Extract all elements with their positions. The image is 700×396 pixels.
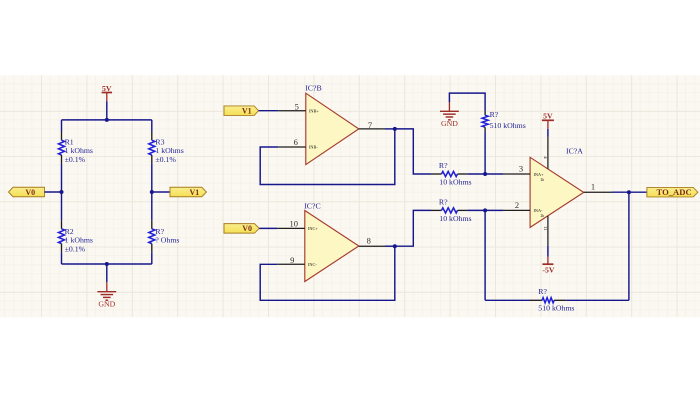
wire left branch mid-lower bbox=[61, 192, 63, 220]
svg-text:1 kOhms: 1 kOhms bbox=[155, 146, 183, 155]
wire IC?C output bbox=[385, 245, 395, 247]
wire pin3 node to pin3 bbox=[485, 173, 503, 175]
resistor R4 unknown value bbox=[149, 220, 180, 252]
pin 9 IC?C bbox=[277, 255, 317, 267]
svg-text:IC?B: IC?B bbox=[305, 84, 321, 93]
ground GND top bbox=[440, 102, 459, 128]
wire right branch mid-upper bbox=[151, 164, 153, 192]
svg-text:3: 3 bbox=[519, 163, 523, 173]
svg-text:INA+: INA+ bbox=[534, 172, 545, 177]
svg-text:INC-: INC- bbox=[308, 262, 317, 267]
svg-text:TO_ADC: TO_ADC bbox=[657, 187, 692, 197]
wire GND top rail bbox=[449, 93, 485, 111]
wire right branch mid-lower bbox=[151, 192, 153, 220]
pin 2 IC?A bbox=[503, 200, 544, 218]
junction IC?B output bbox=[393, 127, 397, 131]
svg-text:6: 6 bbox=[294, 137, 298, 147]
wire output IC?A bbox=[612, 191, 647, 193]
svg-text:? Ohms: ? Ohms bbox=[155, 236, 179, 245]
pin 8 IC?C output bbox=[359, 235, 385, 246]
wire IC?C feedback bbox=[260, 246, 395, 300]
op-amp U2 IC?C bbox=[304, 201, 359, 281]
junction top rail bbox=[105, 118, 109, 122]
svg-text:7: 7 bbox=[368, 120, 372, 130]
svg-text:R?: R? bbox=[439, 161, 448, 170]
junction IC?C output bbox=[393, 244, 397, 248]
junction V1 node bbox=[150, 190, 154, 194]
op-amp U1 IC?B bbox=[305, 84, 359, 165]
wire V1 to pin5 bbox=[259, 110, 279, 112]
svg-text:V0: V0 bbox=[25, 188, 35, 197]
pin 4 vplus IC?A bbox=[543, 137, 548, 169]
svg-text:1 kOhms: 1 kOhms bbox=[65, 146, 93, 155]
svg-text:510 kOhms: 510 kOhms bbox=[490, 121, 526, 130]
ground GND bridge bbox=[97, 282, 116, 308]
wire left branch bottom bbox=[61, 252, 63, 264]
wire IC?B out to R5 bbox=[395, 129, 431, 174]
pin 1 IC?A output bbox=[584, 181, 612, 192]
svg-text:2: 2 bbox=[515, 200, 519, 210]
svg-text:V1: V1 bbox=[242, 107, 252, 116]
svg-text:1 kOhms: 1 kOhms bbox=[65, 236, 93, 245]
wire R6 to junction bbox=[467, 209, 485, 211]
wire left branch upper bbox=[61, 120, 63, 132]
svg-text:IC?A: IC?A bbox=[566, 146, 583, 155]
svg-text:10: 10 bbox=[289, 219, 298, 229]
junction pin2 node bbox=[483, 208, 487, 212]
wire feedback riser bbox=[628, 192, 630, 300]
power -5V symbol IC?A bbox=[542, 257, 555, 275]
svg-text:8: 8 bbox=[367, 235, 371, 245]
svg-text:±0.1%: ±0.1% bbox=[155, 155, 176, 164]
resistor R8 510 kOhms bbox=[530, 287, 574, 313]
wire bridge to V1 port bbox=[152, 191, 170, 193]
svg-text:R?: R? bbox=[439, 197, 448, 206]
svg-text:5: 5 bbox=[295, 101, 299, 111]
svg-text:R?: R? bbox=[490, 110, 499, 119]
wire pin2 node down bbox=[484, 210, 486, 300]
resistor R6 10 kOhms bbox=[431, 197, 472, 223]
svg-text:GND: GND bbox=[441, 119, 458, 128]
wire right branch bottom bbox=[151, 252, 153, 264]
resistor R2 bbox=[59, 220, 93, 253]
wire feedback bottom left bbox=[485, 299, 530, 301]
svg-text:INB+: INB+ bbox=[309, 108, 319, 113]
svg-text:10 kOhms: 10 kOhms bbox=[439, 214, 471, 223]
svg-text:2b: 2b bbox=[541, 178, 545, 182]
wire pin2 node to pin2 bbox=[485, 209, 503, 211]
pin 10 IC?C bbox=[277, 219, 318, 231]
wire right branch upper bbox=[151, 120, 153, 132]
svg-text:R?: R? bbox=[538, 287, 547, 296]
svg-text:-5V: -5V bbox=[542, 266, 554, 275]
schematic sheet background bbox=[0, 75, 700, 317]
svg-text:INC+: INC+ bbox=[308, 226, 318, 231]
svg-text:INA-: INA- bbox=[534, 208, 544, 213]
wire feedback bottom right bbox=[566, 299, 629, 301]
svg-text:R?: R? bbox=[155, 227, 164, 236]
port V0 left bbox=[9, 187, 45, 197]
junction pin3 node bbox=[483, 172, 487, 176]
power +5V symbol IC?A bbox=[542, 112, 554, 129]
svg-text:10 kOhms: 10 kOhms bbox=[439, 178, 471, 187]
wire left branch mid-upper bbox=[61, 164, 63, 192]
resistor R1 bbox=[59, 132, 93, 164]
pin 7 IC?B output bbox=[359, 120, 385, 130]
pin 3 IC?A bbox=[503, 163, 544, 182]
svg-text:GND: GND bbox=[98, 299, 115, 308]
svg-text:2b: 2b bbox=[541, 214, 545, 218]
wire 5V stem bbox=[106, 101, 108, 120]
svg-text:1: 1 bbox=[591, 181, 595, 191]
wire R7 to pin3 node bbox=[484, 132, 486, 174]
svg-text:5V: 5V bbox=[102, 84, 112, 93]
svg-text:11: 11 bbox=[543, 226, 548, 231]
wire GND stem bbox=[106, 264, 108, 282]
resistor R7 510 kOhms bbox=[482, 110, 526, 132]
port V1 to IC?B bbox=[224, 106, 259, 116]
port V0 to IC?C bbox=[224, 224, 259, 234]
svg-text:IC?C: IC?C bbox=[304, 201, 320, 210]
pin 11 vminus IC?A bbox=[543, 216, 548, 246]
wire IC?B output bbox=[385, 128, 395, 130]
power +5V symbol bridge bbox=[102, 84, 112, 101]
wire IC?C out to R6 bbox=[395, 210, 431, 246]
svg-text:±0.1%: ±0.1% bbox=[65, 244, 86, 253]
wire V0 to bridge bbox=[45, 191, 62, 193]
svg-text:V1: V1 bbox=[190, 188, 200, 197]
svg-text:R2: R2 bbox=[65, 227, 74, 236]
svg-text:9: 9 bbox=[290, 255, 294, 265]
op-amp U3 IC?A bbox=[530, 146, 584, 227]
wire IC?B feedback bbox=[260, 129, 395, 185]
pin 5 IC?B bbox=[278, 101, 319, 113]
wire 5V to vplus pin bbox=[547, 129, 549, 137]
svg-text:±0.1%: ±0.1% bbox=[65, 155, 86, 164]
pin 6 IC?B bbox=[278, 137, 318, 149]
wire vminus to -5V bbox=[547, 245, 549, 256]
wire R5 to junction bbox=[467, 173, 485, 175]
svg-text:R1: R1 bbox=[65, 138, 74, 147]
junction bottom rail bbox=[105, 262, 109, 266]
wire bridge top rail bbox=[62, 119, 152, 121]
svg-text:510 kOhms: 510 kOhms bbox=[538, 303, 574, 312]
port TO_ADC bbox=[647, 187, 698, 197]
resistor R3 bbox=[149, 132, 184, 164]
junction output node bbox=[627, 190, 631, 194]
wire V0 to pin10 bbox=[259, 227, 277, 229]
svg-text:V0: V0 bbox=[242, 224, 252, 233]
port V1 right bbox=[170, 187, 206, 197]
resistor R5 10 kOhms bbox=[431, 161, 472, 187]
svg-text:5V: 5V bbox=[543, 112, 553, 121]
svg-text:R3: R3 bbox=[155, 138, 164, 147]
svg-text:INB-: INB- bbox=[309, 145, 318, 150]
wire bridge bottom rail bbox=[62, 263, 152, 265]
junction V0 node bbox=[60, 190, 64, 194]
